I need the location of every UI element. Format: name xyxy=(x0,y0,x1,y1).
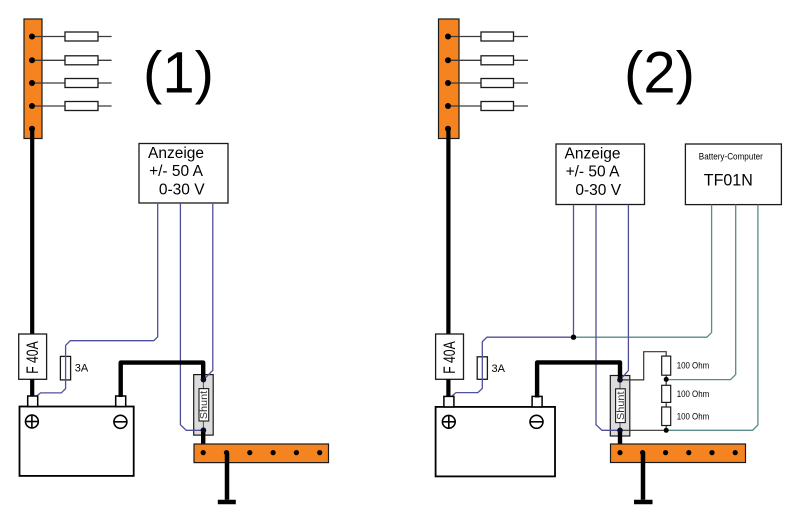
svg-text:Battery-Computer: Battery-Computer xyxy=(699,152,763,162)
busbar screw dots xyxy=(617,450,737,455)
resistor chain stubs xyxy=(665,375,667,385)
wire row 4 xyxy=(32,105,112,107)
svg-text:(2): (2) xyxy=(624,41,695,106)
plus symbol xyxy=(26,415,39,428)
wire row 1 xyxy=(448,36,528,38)
svg-text:TF01N: TF01N xyxy=(704,170,753,189)
svg-text:0-30 V: 0-30 V xyxy=(575,182,621,199)
main positive wire busbar to F40A xyxy=(446,129,450,334)
fuse F2 xyxy=(481,56,514,65)
thick wire shunt to ground busbar xyxy=(618,432,622,453)
busbar terminal dots xyxy=(29,34,35,132)
shunt bottom node xyxy=(201,427,207,433)
shunt top node xyxy=(617,377,623,383)
node below R1 xyxy=(664,377,669,382)
wire row 4 xyxy=(448,105,528,107)
svg-text:0-30 V: 0-30 V xyxy=(159,181,205,198)
fuse F4 xyxy=(65,102,98,111)
shunt top node xyxy=(201,377,207,383)
battery plus terminal xyxy=(444,396,454,407)
svg-text:3A: 3A xyxy=(75,363,89,375)
svg-text:(1): (1) xyxy=(143,41,214,106)
svg-text:F 40A: F 40A xyxy=(24,341,42,374)
busbar terminal dots xyxy=(445,34,451,132)
plus symbol xyxy=(442,415,455,428)
svg-text:+/- 50 A: +/- 50 A xyxy=(149,163,204,180)
fuse F1 xyxy=(481,32,514,41)
svg-text:Anzeige: Anzeige xyxy=(148,145,204,162)
svg-text:3A: 3A xyxy=(492,363,506,375)
ground busbar (bottom) xyxy=(194,444,329,463)
sense wire W3 Anzeige to shunt top xyxy=(204,203,213,380)
battery xyxy=(436,407,555,477)
sense wire W3 Anzeige to shunt top xyxy=(620,205,629,380)
svg-text:F 40A: F 40A xyxy=(441,341,459,374)
wire F40A to battery plus terminal xyxy=(30,379,34,398)
ground wire xyxy=(641,453,646,500)
fuse F40A xyxy=(436,334,464,379)
wire row 3 xyxy=(448,82,528,84)
Anzeige display box xyxy=(139,144,228,204)
resistor R1 xyxy=(662,356,671,375)
fuse F3 xyxy=(481,79,514,88)
sense wire W1 Anzeige to 3A fuse to battery plus xyxy=(35,203,158,398)
battery minus terminal xyxy=(532,396,542,407)
battery plus terminal xyxy=(28,396,38,407)
busbar screw dots xyxy=(201,450,323,455)
minus symbol xyxy=(114,415,127,428)
Battery-Computer box xyxy=(685,144,781,205)
svg-text:Anzeige: Anzeige xyxy=(564,146,620,163)
sense wire shunt top to resistor chain xyxy=(620,352,666,380)
ground symbol xyxy=(634,500,653,505)
fuse 3A xyxy=(477,357,487,380)
ground symbol xyxy=(218,500,236,505)
svg-text:Shunt: Shunt xyxy=(616,391,627,420)
fuse F2 xyxy=(65,56,98,65)
battery xyxy=(20,407,134,476)
ground busbar (bottom) xyxy=(611,444,746,463)
teal wire TF01N to R3 node xyxy=(666,205,758,431)
thick wire shunt to ground busbar xyxy=(201,432,205,453)
wire row 2 xyxy=(448,59,528,61)
battery minus terminal xyxy=(116,396,126,407)
main positive wire busbar to F40A xyxy=(30,129,34,334)
fuse F3 xyxy=(65,79,98,88)
sense wire W2 Anzeige to shunt bottom xyxy=(180,203,203,430)
svg-text:Shunt: Shunt xyxy=(199,391,210,420)
wire F40A to battery plus terminal xyxy=(446,379,450,398)
busbar (positive distribution, top left) xyxy=(24,19,42,139)
junction node W1/TF01N xyxy=(571,335,576,340)
wire row 1 xyxy=(32,36,112,38)
resistor R2 xyxy=(662,385,671,402)
shunt bottom node xyxy=(617,428,623,434)
thick wire battery minus to shunt top xyxy=(121,363,204,397)
sense wire W1 Anzeige to 3A fuse to battery plus xyxy=(450,205,573,398)
resistor R3 xyxy=(662,407,671,426)
fuse F40A xyxy=(19,334,47,379)
svg-text:+/- 50 A: +/- 50 A xyxy=(566,164,621,181)
Anzeige display box xyxy=(556,144,645,205)
teal wire TF01N to R1 node xyxy=(666,205,736,380)
busbar (positive distribution, top) xyxy=(439,19,460,139)
wire row 2 xyxy=(32,59,112,61)
sense wire shunt bottom to resistor chain xyxy=(620,429,666,431)
shunt body xyxy=(194,375,214,436)
sense wire W2 Anzeige to shunt bottom xyxy=(596,205,620,431)
shunt body xyxy=(610,376,630,437)
minus symbol xyxy=(530,415,543,428)
wire row 3 xyxy=(32,82,112,84)
svg-text:100 Ohm: 100 Ohm xyxy=(677,389,710,399)
ground wire xyxy=(225,453,230,500)
svg-text:100 Ohm: 100 Ohm xyxy=(677,412,710,422)
fuse F1 xyxy=(65,32,98,41)
fuse F4 xyxy=(481,102,514,111)
thick wire battery minus to shunt top xyxy=(537,362,620,397)
fuse 3A xyxy=(60,356,70,380)
svg-text:100 Ohm: 100 Ohm xyxy=(677,361,710,371)
node below R3 xyxy=(664,428,669,433)
teal wire TF01N supply to W1 node xyxy=(574,205,712,338)
